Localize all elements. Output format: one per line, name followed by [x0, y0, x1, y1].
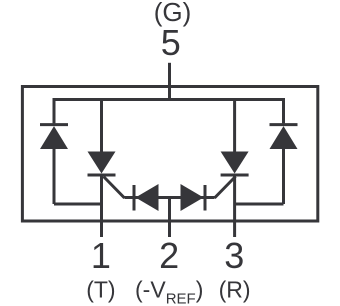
wire pin3 lead down through package edge — [233, 175, 236, 237]
svg-text:3: 3 — [224, 235, 244, 276]
wire pin1 lead down through package edge — [100, 175, 103, 237]
svg-text:5: 5 — [161, 22, 181, 63]
svg-text:(T): (T) — [86, 277, 115, 303]
wire pin1 from bus to diode D2 — [100, 100, 103, 153]
wire internal G bus with corners down to outer diode cathodes — [54, 100, 284, 124]
diode D2 cathode bar (pin1 inner) — [88, 174, 116, 177]
diode D6 anode wire (right outer) — [282, 148, 285, 204]
diode D1 anode wire — [53, 148, 56, 204]
wire middle horizontal between back-to-back diodes — [125, 196, 215, 199]
wire pin3 from bus to diode D5 — [233, 100, 236, 153]
wire right bottom horizontal from pin3 — [235, 203, 284, 206]
wire left bottom horizontal to pin1 — [54, 203, 102, 206]
diode D6 triangle (right outer, pointing up) — [270, 126, 298, 149]
package outline rectangle — [22, 87, 317, 222]
wire pin5 stub (G) into package — [168, 63, 171, 100]
svg-text:2: 2 — [159, 235, 179, 276]
svg-text:(R): (R) — [219, 277, 251, 303]
wire diagonal from pin3 node to middle pair — [215, 177, 236, 199]
wire pin2 lead down from middle pair — [168, 198, 171, 238]
diode D4 triangle (middle, pointing right) — [181, 184, 204, 211]
diode D2 triangle (pin1 inner, pointing down) — [88, 152, 116, 174]
diode D6 cathode bar (right outer) — [270, 123, 298, 126]
diode D5 cathode bar (pin3 inner) — [221, 174, 249, 177]
svg-text:(-VREF): (-VREF) — [135, 277, 203, 306]
diode D3 cathode bar (middle left) — [133, 185, 136, 211]
diode D1 triangle (left outer, pointing up) — [40, 126, 68, 149]
wire diagonal from pin1 node to middle pair — [104, 177, 125, 199]
diode D4 cathode bar (middle right) — [204, 185, 207, 211]
diode D3 triangle (middle, pointing left) — [136, 184, 159, 211]
svg-text:1: 1 — [91, 235, 111, 276]
diode D1 cathode bar (left outer) — [40, 123, 68, 126]
diode D5 triangle (pin3 inner, pointing down) — [221, 152, 249, 174]
